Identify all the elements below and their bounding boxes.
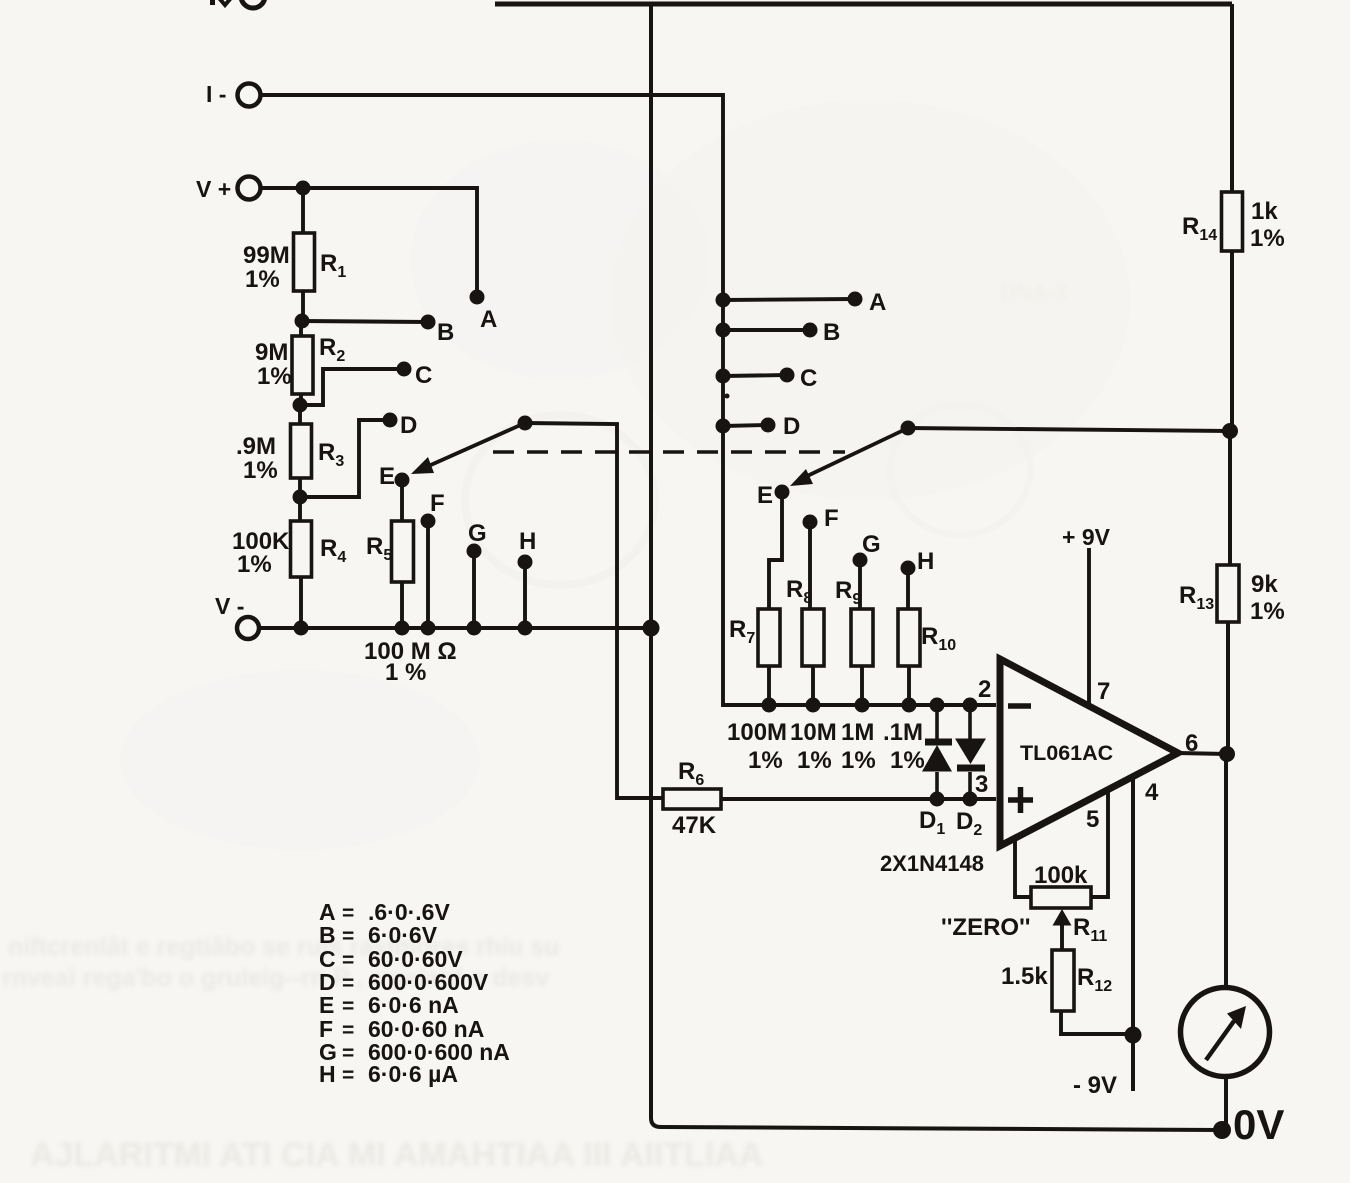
node contact B right junction [716,323,731,338]
svg-text:V -: V - [215,593,244,619]
node D1 top [930,698,945,713]
svg-text:1%: 1% [748,747,783,774]
terminal V- [237,617,259,639]
node R7 bottom [762,698,777,713]
svg-text:4: 4 [1145,779,1159,806]
wire R3 bottom [298,478,302,497]
switch gang dashed link [493,450,845,454]
resistor R12 [1052,950,1074,1011]
svg-text:A: A [869,289,886,316]
wire contact E right to R7 [769,492,782,609]
node V- end junction [643,620,660,637]
node D2 top [963,698,978,713]
svg-text:1%: 1% [890,747,925,774]
svg-text:=: = [342,925,354,948]
wire R12 bottom to -9V line [1061,1011,1133,1034]
stray dot [725,394,730,399]
wire contact C right [723,375,787,376]
svg-text:niftcrenlât e regtiâbo se: niftcrenlât e regtiâbo se ruls raslmores… [8,933,560,961]
svg-text:C: C [800,365,817,392]
node contact G left [467,544,482,559]
svg-text:B: B [823,319,840,346]
svg-text:- 9V: - 9V [1073,1072,1117,1099]
svg-text:1M: 1M [841,719,874,746]
svg-text:1%: 1% [257,363,292,390]
resistor R2 [292,336,313,394]
svg-text:=: = [342,972,354,995]
svg-text:AJLARITMI ATI CIA MI AMAHT: AJLARITMI ATI CIA MI AMAHTIAA III AIITLI… [30,1136,763,1174]
node contact C right junction [716,369,731,384]
terminal V+ [238,177,261,200]
svg-text:A: A [480,306,497,333]
wire R2 bottom [299,394,303,405]
wire node to contact C [300,369,404,405]
resistor R6 [663,789,721,809]
resistor R14 [1222,192,1243,251]
svg-text:1k: 1k [1251,198,1278,225]
wire I+ top rail [495,2,1232,7]
wire contact H right to R10 [906,568,910,609]
switch arm S1b [790,428,908,486]
svg-text:E: E [379,463,395,490]
node F/V- junction [421,621,436,636]
svg-text:H: H [917,548,934,575]
node contact B left [421,315,436,330]
svg-text:=: = [342,902,354,925]
svg-text:B: B [437,319,454,346]
resistor R5 [392,521,414,582]
node D1 bottom [930,792,945,807]
svg-text:6·0·6 nA: 6·0·6 nA [368,992,459,1018]
svg-text:6·0·6V: 6·0·6V [368,922,438,948]
wire contact G right to R9 [858,560,862,609]
node R12/-9V junction [1125,1027,1142,1044]
svg-text:1%: 1% [1250,225,1285,252]
svg-text:E: E [319,992,334,1018]
node 0V junction [1213,1121,1231,1139]
wire R11 wiper to R12 [1060,925,1064,950]
node contact A left [470,290,485,305]
wire R10 bottom [907,666,911,705]
wire contact A right [723,299,855,300]
wire R5 bottom [400,582,404,628]
node R3/R4 junction [293,490,308,505]
op-amp U1 TL061AC [1000,659,1178,846]
node contact D right junction [716,419,731,434]
wire node to contact D [300,420,390,497]
node contact B right end [803,323,818,338]
svg-text:2X1N4148: 2X1N4148 [880,851,984,876]
wire R1 bottom to node [301,291,305,321]
svg-text:1%: 1% [841,747,876,774]
wire R4 bottom to V- rail [299,577,303,628]
svg-text:C: C [415,362,432,389]
svg-text:DNA-3: DNA-3 [1000,280,1067,305]
node feedback junction [1222,423,1238,439]
svg-text:E: E [757,482,773,509]
svg-text:100M: 100M [727,719,787,746]
wire node to contact B [302,321,428,322]
svg-text:=: = [342,1064,354,1087]
wire R4 top [298,497,302,521]
svg-text:3: 3 [975,771,988,798]
wire R7 bottom [767,666,771,705]
node dots [293,181,1239,1140]
wire pin 5 down [1091,791,1108,897]
node contact A right end [848,292,863,307]
svg-text:6: 6 [1185,730,1198,757]
resistor R9 [851,609,873,666]
wire contact B right [723,328,810,332]
wire right rail (R14 branch down to 0V) [1226,4,1232,1130]
node contact C left [397,362,412,377]
svg-text:TL061AC: TL061AC [1020,741,1113,765]
svg-text:+ 9V: + 9V [1062,524,1111,550]
svg-text:V +: V + [196,176,231,202]
resistor R13 [1217,565,1239,622]
svg-text:=: = [342,1042,354,1065]
wire contact F down [426,521,430,628]
wire R6 to pin 3 [721,797,996,801]
resistor R1 [294,233,315,291]
wire switch arm S1b to feedback node [908,428,1230,431]
node contact E right [775,485,790,500]
wire pin 6 to rail [1178,753,1227,754]
wire pin 4 to -9V [1131,778,1135,1091]
svg-text:5: 5 [1086,806,1099,833]
svg-text:1 %: 1 % [385,659,426,686]
resistor R3 [291,424,312,478]
wire R2 top [299,321,303,336]
wire R9 bottom [860,666,864,705]
resistor R8 [802,609,824,666]
node R10 bottom [902,698,917,713]
node R8 bottom [806,698,821,713]
node D2 bottom [963,792,978,807]
terminal I+ [210,0,265,8]
node H/V- junction [518,621,533,636]
node pin6/rail junction [1219,746,1235,762]
svg-text:=: = [342,995,354,1018]
resistor R4 [291,521,312,577]
node S1b pivot [901,421,916,436]
resistor R10 [898,609,920,666]
node R4/V- junction [294,621,309,636]
switch arm S1a [411,423,525,474]
svg-text:F: F [824,505,839,532]
svg-text:0V: 0V [1233,1101,1284,1148]
wire pin 1 down [1015,840,1031,897]
node contact C right end [780,368,795,383]
node contact A right junction [716,293,731,308]
wire I- to switch common [261,95,996,705]
diode D1 [922,705,952,799]
node R9 bottom [855,698,870,713]
resistor R7 [758,609,780,666]
wire V+ to R1 and contact A [261,188,477,297]
svg-text:1%: 1% [243,457,278,484]
svg-text:1%: 1% [245,266,280,293]
svg-text:.9M: .9M [236,433,276,460]
node contact E left [395,473,410,488]
svg-text:10M: 10M [790,719,837,746]
node contact D left [383,413,398,428]
node contact D right end [761,418,776,433]
svg-text:''ZERO'': ''ZERO'' [941,914,1031,941]
legend range A [319,899,510,1087]
wire R3 top [298,405,302,424]
svg-text:B: B [319,922,336,948]
terminal I- [238,84,261,107]
svg-text:H: H [319,1061,336,1087]
svg-text:1%: 1% [797,747,832,774]
wire R1 top [301,188,305,233]
node G/V- junction [467,621,482,636]
svg-text:9k: 9k [1251,571,1278,598]
wire R8 bottom [811,666,815,705]
diode D2 [955,705,986,799]
node S1a pivot [518,416,533,431]
node R1/R2 junction [295,314,310,329]
potentiometer R11 [1031,887,1091,928]
svg-text:1.5k: 1.5k [1001,963,1048,990]
svg-text:G: G [862,531,881,558]
node R5/V- junction [395,621,410,636]
svg-text:D: D [400,412,417,439]
node V+/R1 junction [296,181,311,196]
meter M [1181,988,1270,1077]
node contact H left [518,555,533,570]
svg-text:100k: 100k [1034,862,1088,889]
svg-text:9M: 9M [255,339,288,366]
node contact G right [853,553,868,568]
svg-text:2: 2 [978,676,991,703]
svg-text:6·0·6 µA: 6·0·6 µA [368,1061,458,1087]
svg-text:I -: I - [206,81,226,107]
wire contact G down [472,551,476,628]
svg-text:=: = [342,1019,354,1042]
wire contact F right to R8 [808,522,812,609]
wire contact D right [723,425,768,426]
wire contact E to R5 [400,480,404,523]
node contact H right [901,561,916,576]
svg-text:1%: 1% [237,551,272,578]
svg-text:99M: 99M [243,242,290,269]
svg-text:1%: 1% [1250,598,1285,625]
wire +9V to pin 7 [1087,548,1091,707]
svg-text:47K: 47K [672,812,717,839]
node R2/R3 junction [293,398,308,413]
node contact F right [803,515,818,530]
node contact F left [421,514,436,529]
svg-text:F: F [430,490,445,517]
svg-text:H: H [519,528,536,555]
wire left vertical rail to 0V [651,4,1222,1130]
svg-text:=: = [342,949,354,972]
svg-text:G: G [468,520,487,547]
wire switch arm S1a to R6 [525,423,663,798]
svg-text:.1M: .1M [883,719,923,746]
svg-text:7: 7 [1097,678,1110,705]
svg-text:D: D [783,413,800,440]
wire V- rail [259,626,651,630]
wire contact H down [523,562,527,628]
